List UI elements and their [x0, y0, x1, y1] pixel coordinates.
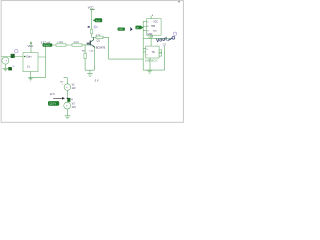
- svg-text:0 V: 0 V: [95, 79, 99, 82]
- probe PR2 marker: [94, 26, 96, 28]
- svg-text:LM555CN: LM555CN: [145, 59, 158, 63]
- timer U1A 555 top section: [147, 19, 162, 36]
- wire supply stack: [64, 78, 68, 116]
- svg-text:12V: 12V: [72, 88, 77, 90]
- VCC flag top: [88, 6, 95, 10]
- probe PR5 pill: [48, 101, 59, 106]
- svg-text:12V: 12V: [72, 107, 77, 109]
- wire VCC stem: [91, 10, 93, 38]
- resistor R5: [82, 50, 94, 58]
- page artifact: [178, 1, 180, 3]
- sheet frame: [1, 1, 183, 123]
- wire emitter: [93, 47, 95, 70]
- ground GND1: [3, 68, 9, 70]
- ground GND5: [65, 116, 71, 119]
- ground GND3: [87, 74, 99, 83]
- resistor R3 vertical: [91, 29, 93, 34]
- svg-text:1.9V: 1.9V: [118, 29, 123, 31]
- junction node: [67, 98, 68, 99]
- svg-text:VCC: VCC: [88, 6, 94, 10]
- wire emitter rail: [85, 70, 94, 73]
- wire bus pins top box: [143, 21, 146, 30]
- wire right branch: [164, 46, 166, 70]
- capacitor C1: [11, 54, 15, 58]
- wire mic input: [1, 56, 23, 58]
- wire bus pins bottom box: [143, 49, 145, 52]
- svg-text:VCC: VCC: [153, 21, 158, 23]
- wire U1A to U1B: [150, 35, 152, 46]
- svg-text:2.5mV: 2.5mV: [44, 45, 51, 47]
- wire U1A top pin: [150, 16, 152, 19]
- svg-text:12 V: 12 V: [50, 93, 55, 96]
- annotation circle output: [173, 32, 176, 35]
- annotation circle near C1: [15, 50, 18, 53]
- wire U1B bottom pin: [149, 58, 151, 70]
- resistor R4: [96, 35, 103, 39]
- source V2: [64, 84, 76, 91]
- svg-text:TR: TR: [152, 52, 155, 54]
- probe PR2 pill: [93, 18, 103, 22]
- microphone source V1: [2, 57, 9, 64]
- output terminal: [172, 36, 175, 39]
- wire collector node: [92, 36, 96, 38]
- probe PR4 pill: [135, 26, 144, 30]
- svg-text:BC547B: BC547B: [96, 47, 106, 50]
- svg-text:10kΩ: 10kΩ: [73, 42, 79, 44]
- wire R5 branch: [84, 45, 86, 70]
- timer U1B 555 lower section: [146, 46, 160, 58]
- probe PR5 arrow: [53, 97, 62, 99]
- wire base chain: [52, 44, 90, 46]
- probe PR1 pill: [43, 43, 53, 47]
- wire MK1 right pin: [28, 47, 45, 78]
- probe PR3 marker flag: [130, 27, 132, 31]
- capacitor C2 pads: [159, 50, 162, 56]
- svg-text:9.0V: 9.0V: [96, 20, 101, 22]
- VCC flag left: [28, 41, 34, 52]
- source V3: [64, 102, 77, 109]
- wire output: [143, 37, 170, 39]
- svg-text:DIS: DIS: [153, 30, 157, 32]
- svg-text:1.0kΩ: 1.0kΩ: [57, 42, 63, 44]
- svg-text:Gain: Gain: [26, 56, 32, 59]
- ground GND2: [29, 78, 33, 81]
- ground GND4: [147, 70, 152, 73]
- resistor R1: [56, 42, 66, 46]
- wire left bus: [142, 21, 144, 70]
- svg-text:12.0 V: 12.0 V: [49, 103, 56, 106]
- wire MK1 bottom pin: [30, 72, 32, 78]
- output annotation Vout: [156, 36, 172, 44]
- microphone module MK1: [23, 53, 38, 72]
- probe badge PR7: [68, 98, 71, 102]
- svg-text:VCC: VCC: [28, 44, 34, 48]
- wire V1 to ground: [4, 64, 6, 68]
- transistor Q1: [90, 37, 105, 49]
- wire bottom rail: [143, 69, 164, 71]
- probe PR3 pill: [118, 28, 125, 32]
- wire R4 to U1: [103, 37, 143, 59]
- junction label: [88, 26, 90, 28]
- resistor R2: [72, 42, 82, 46]
- node base junction: [87, 43, 90, 45]
- probe badge PR6: [8, 67, 12, 70]
